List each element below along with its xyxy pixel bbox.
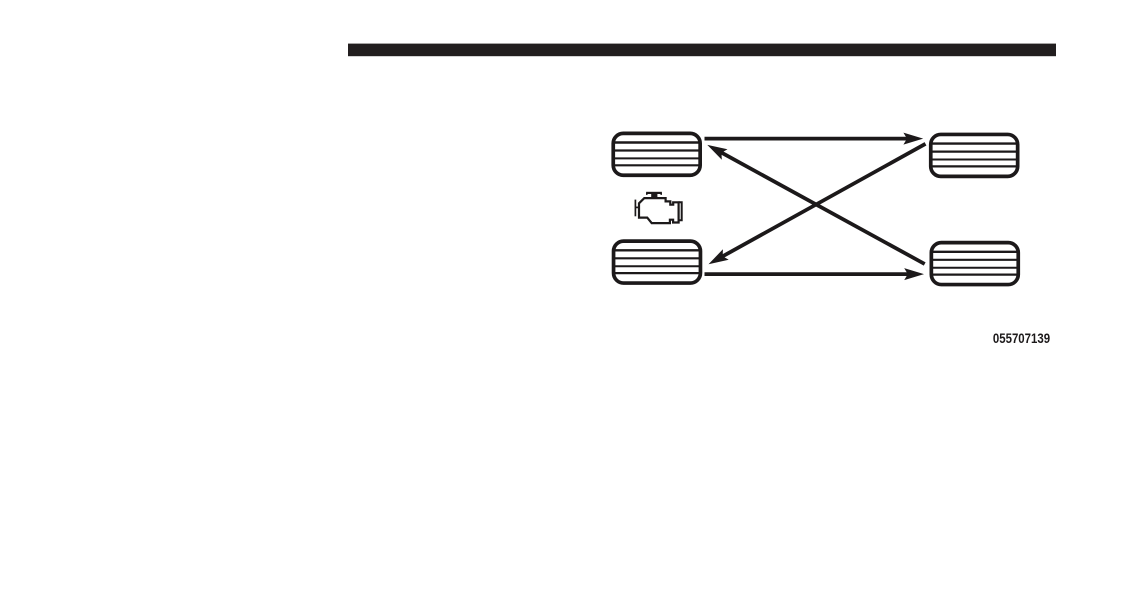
svg-text:055707139: 055707139: [993, 330, 1050, 347]
